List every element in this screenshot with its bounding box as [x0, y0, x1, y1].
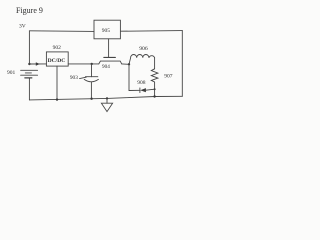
svg-text:903: 903	[70, 75, 78, 81]
battery 901	[21, 70, 38, 78]
svg-text:905: 905	[102, 28, 111, 34]
node DC/DC ground junction	[56, 98, 58, 100]
ground symbol	[101, 103, 112, 111]
node diode-resistor junction	[154, 88, 156, 90]
node battery-top junction	[28, 63, 30, 65]
node capacitor branch junction	[91, 63, 93, 65]
control unit U905 box	[94, 20, 120, 39]
wire 905 gate line down to transistor	[108, 39, 110, 57]
diode D908 triangle	[140, 88, 146, 92]
inductor L906	[129, 54, 155, 64]
wire diode to resistor junction	[146, 89, 155, 90]
svg-text:908: 908	[137, 80, 146, 86]
node resistor ground junction	[153, 95, 155, 97]
ground stub wire	[106, 98, 108, 103]
svg-text:DC/DC: DC/DC	[48, 58, 66, 64]
node inductor branch junction	[128, 63, 130, 65]
wire left vertical (3V rail down to battery)	[28, 31, 30, 64]
svg-text:901: 901	[7, 70, 16, 76]
transistor Q904 channel	[99, 61, 122, 64]
leader line from 903 to capacitor	[80, 77, 87, 78]
node capacitor ground junction	[90, 98, 92, 100]
wire bottom rail	[29, 96, 182, 100]
diode D908 cathode bar	[139, 88, 141, 93]
resistor R907	[151, 69, 158, 82]
current-direction arrow on input wire	[36, 62, 40, 65]
svg-text:3V: 3V	[19, 23, 26, 29]
svg-text:907: 907	[164, 74, 173, 80]
wire DC/DC output to transistor	[68, 63, 99, 65]
dc-dc converter U902 box	[46, 52, 68, 66]
wire top rail (3V to 905 left pin)	[29, 30, 94, 33]
wire diode branch vertical	[128, 64, 130, 90]
transistor Q904 gate bar	[104, 56, 116, 58]
wire 905 output to right rail	[120, 30, 182, 33]
wire battery to DC/DC input	[29, 63, 46, 65]
wire transistor to inductor junction	[122, 63, 129, 65]
svg-text:904: 904	[102, 64, 110, 70]
wire battery negative to bottom rail	[28, 78, 30, 100]
capacitor C903	[84, 64, 98, 99]
wire diode anode side	[129, 89, 140, 91]
node ground stub junction	[106, 97, 108, 99]
svg-text:906: 906	[139, 46, 148, 52]
wire DC/DC ground pin to bottom rail	[56, 66, 58, 100]
wire resistor bottom to rail	[154, 82, 156, 97]
wire inductor to resistor	[154, 58, 156, 69]
wire right vertical rail	[181, 31, 183, 97]
svg-text:Figure 9: Figure 9	[16, 6, 43, 15]
svg-text:902: 902	[53, 45, 62, 51]
